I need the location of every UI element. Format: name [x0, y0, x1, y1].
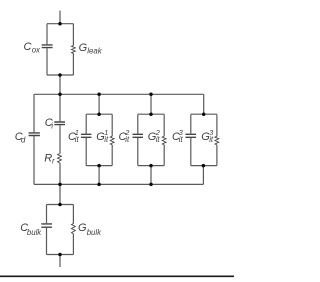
resistor R_r — [58, 154, 62, 163]
wire bottom terminal stub — [59, 255, 61, 268]
wire sub-block 1 rect — [86, 114, 112, 165]
label G_it2 — [148, 128, 161, 144]
wire sub-block 2 left branch — [137, 114, 139, 165]
wire stub from bottom rail to bulk block — [59, 184, 61, 204]
wire C_ox block bottom rail — [47, 74, 73, 76]
wire sub-block 3 rect — [191, 114, 217, 165]
junction node C_ox block top — [58, 22, 62, 26]
wire sub-block 1 right branch — [111, 114, 113, 165]
wire bulk block top rail — [47, 204, 74, 206]
junction node sub-block1 top — [97, 112, 101, 116]
junction node bulk block top — [58, 203, 62, 207]
label C_d — [15, 131, 26, 144]
svg-text:bulk: bulk — [27, 228, 42, 237]
wire sub-block 3 bottom stub — [202, 166, 204, 185]
wire bulk block bottom rail — [47, 254, 74, 256]
capacitor C_ox — [42, 45, 53, 48]
wire right branch of G_bulk — [72, 205, 74, 255]
junction node top rail at x60 — [58, 93, 62, 97]
wire left branch of C_bulk — [46, 205, 48, 255]
svg-text:leak: leak — [87, 47, 102, 56]
junction node sub-block3 bottom — [202, 164, 206, 168]
capacitor C_bulk — [41, 224, 52, 227]
resistor G_it3 — [215, 136, 219, 145]
label C_it3 — [172, 128, 184, 144]
resistor G_leak — [72, 46, 76, 54]
junction node sub-block3 top — [202, 112, 206, 116]
junction node bottom rail at x151 — [149, 183, 153, 187]
junction node bottom rail at x60 — [58, 183, 62, 187]
label C_bulk — [20, 222, 42, 237]
wire C_i R_r branch — [59, 94, 61, 184]
wire sub-block 3 left branch — [190, 114, 192, 165]
wire left rail with C_d — [33, 94, 35, 184]
wire top terminal stub — [59, 11, 61, 24]
wire sub-block 1 top stub — [98, 94, 100, 114]
resistor G_bulk — [72, 224, 76, 234]
wire stub from C_ox block to top rail — [59, 75, 61, 94]
label G_leak — [79, 42, 103, 55]
label G_it1 — [96, 128, 109, 144]
junction node sub-block2 top — [149, 112, 153, 116]
wire sub-block 1 bottom stub — [98, 166, 100, 185]
svg-text:G: G — [78, 222, 87, 234]
label C_ox — [24, 41, 42, 54]
junction node bulk block bottom — [58, 253, 62, 257]
wire C_ox block top rail — [47, 23, 73, 25]
wire sub-block 1 left branch — [85, 114, 87, 165]
capacitor C_d — [29, 133, 40, 136]
wire main top rail — [34, 93, 204, 95]
capacitor C_it3 — [186, 134, 197, 137]
svg-text:r: r — [52, 157, 55, 166]
label C_i — [45, 117, 54, 130]
junction node bottom rail at x99 — [97, 183, 101, 187]
junction node sub-block2 bottom — [149, 164, 153, 168]
wire sub-block 2 top stub — [150, 94, 152, 114]
wire sub-block 2 bottom stub — [150, 166, 152, 185]
svg-text:bulk: bulk — [87, 228, 102, 237]
junction node sub-block1 bottom — [97, 164, 101, 168]
svg-text:R: R — [44, 152, 52, 164]
svg-text:G: G — [79, 42, 88, 54]
svg-text:C: C — [24, 41, 32, 53]
wire sub-block 3 top stub — [203, 94, 205, 114]
svg-text:d: d — [21, 136, 26, 145]
wire sub-block 2 right branch — [163, 114, 165, 165]
junction node top rail at x99 — [97, 93, 101, 97]
junction node top rail at x151 — [149, 93, 153, 97]
label C_it1 — [68, 128, 80, 144]
wire right branch of G_leak — [72, 24, 74, 75]
wire sub-block 3 right branch — [216, 114, 218, 165]
capacitor C_it2 — [133, 134, 144, 137]
label R_r — [44, 152, 55, 165]
junction node C_ox block bottom — [58, 73, 62, 77]
wire bottom separator rule — [0, 275, 234, 277]
wire sub-block 2 rect — [138, 114, 164, 165]
wire left branch of C_ox block — [46, 24, 48, 75]
wire main bottom rail — [34, 183, 203, 185]
label G_bulk — [78, 222, 102, 237]
resistor G_it1 — [110, 136, 114, 145]
capacitor C_it1 — [81, 134, 92, 137]
label G_it3 — [201, 128, 214, 144]
svg-text:i: i — [51, 121, 53, 130]
capacitor C_i — [54, 122, 65, 125]
resistor G_it2 — [162, 136, 166, 145]
label C_it2 — [119, 128, 131, 144]
svg-text:ox: ox — [32, 45, 41, 54]
